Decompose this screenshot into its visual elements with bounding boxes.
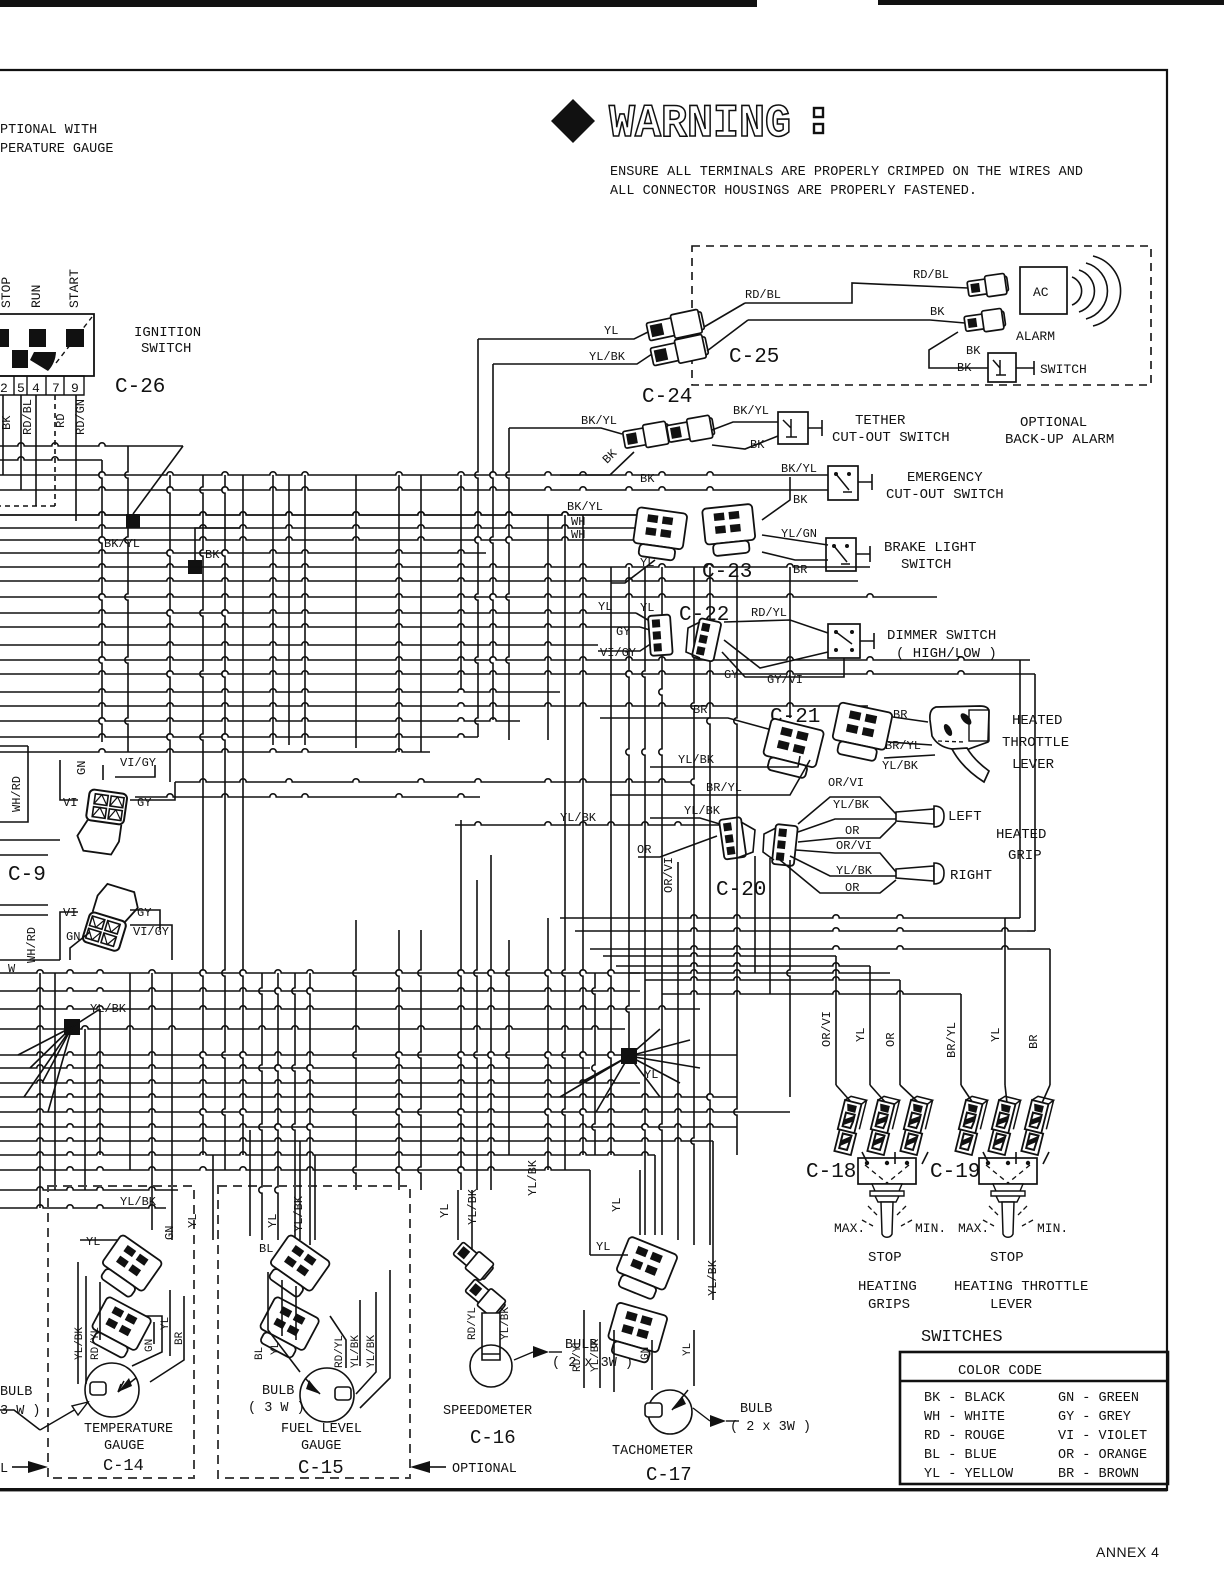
svg-text:BK/YL: BK/YL: [781, 462, 817, 476]
svg-text:C-19: C-19: [930, 1161, 980, 1184]
wire mesh horizontal: [0, 703, 868, 706]
wire alarm switch lead: [1016, 361, 1034, 375]
wire mesh horizontal: [0, 749, 430, 752]
tether cut-out switch box: [778, 412, 808, 444]
svg-text:WH: WH: [571, 528, 585, 542]
wire junction BK riser: [195, 528, 240, 560]
svg-text:GRIPS: GRIPS: [868, 1297, 910, 1313]
wire mesh horizontal: [0, 525, 640, 528]
svg-text:PERATURE GAUGE: PERATURE GAUGE: [0, 142, 113, 157]
temp gauge wire loop left: [78, 1262, 100, 1384]
svg-text:C-9: C-9: [8, 864, 46, 887]
svg-text:RD/YL: RD/YL: [334, 1335, 346, 1368]
svg-text:STOP: STOP: [990, 1250, 1024, 1266]
wire mesh vertical lower: [171, 973, 173, 1240]
svg-text:( 2 x 3W ): ( 2 x 3W ): [730, 1420, 811, 1435]
svg-text:7: 7: [52, 381, 60, 396]
wire GY upper c9: [130, 782, 175, 800]
C-18 heating grips switch contacts: [865, 1161, 869, 1165]
svg-text:LEVER: LEVER: [1012, 757, 1055, 773]
brake light switch box: [826, 538, 856, 571]
svg-text:YL/BK: YL/BK: [466, 1188, 480, 1225]
wire mesh vertical lower: [659, 674, 662, 1235]
connector C-20 right shell: [763, 828, 776, 860]
svg-text:C-17: C-17: [646, 1464, 692, 1486]
C-18 heating grips switch dashed V: [865, 1165, 909, 1183]
wire tail YL c19: [1005, 1085, 1007, 1103]
wire BK to C-24: [560, 452, 634, 475]
ignition switch terminal pin 5 lower: [12, 350, 28, 368]
wire mesh vertical lower: [734, 674, 737, 1155]
svg-text:SPEEDOMETER: SPEEDOMETER: [443, 1404, 532, 1419]
svg-text:VI: VI: [63, 796, 77, 810]
svg-text:OR/VI: OR/VI: [820, 1011, 834, 1047]
wire mesh vertical: [355, 475, 357, 700]
wire mesh horizontal: [0, 594, 937, 597]
svg-text:ANNEX 4: ANNEX 4: [1096, 1544, 1159, 1560]
svg-text:YL/BK: YL/BK: [684, 804, 721, 818]
wire mesh vertical lower: [240, 765, 243, 1155]
svg-text:TEMPERATURE: TEMPERATURE: [84, 1422, 173, 1437]
wire VI/GY into C-22: [598, 643, 652, 651]
wire mesh vertical lower: [488, 855, 491, 1190]
junction YL fan wire: [580, 1056, 629, 1083]
svg-text:START: START: [67, 269, 82, 308]
wire BK/YL to C-23: [0, 512, 640, 515]
wire GN upper c9: [102, 765, 104, 780]
wire to C-18 OR: [645, 977, 900, 980]
ignition switch rotor wedge: [30, 352, 56, 371]
wire mesh vertical lower: [420, 700, 422, 752]
svg-text:RD/YL: RD/YL: [467, 1307, 479, 1340]
connector C-21 left half: [760, 718, 825, 780]
wire mesh vertical: [200, 475, 203, 797]
wire mesh vertical lower: [506, 940, 509, 1155]
wire mesh horizontal lower: [0, 988, 640, 991]
svg-text:CUT-OUT SWITCH: CUT-OUT SWITCH: [832, 430, 950, 446]
wire BK to alarm switch: [929, 332, 988, 368]
wire mesh vertical: [304, 475, 306, 745]
connector C-17 lower: [604, 1302, 668, 1365]
C-19 terminal lead 3: [1043, 1152, 1049, 1164]
color code table outer box: [900, 1352, 1168, 1484]
wire junction BK/YL riser: [133, 446, 183, 514]
wire down to C-17 c: [654, 1155, 656, 1235]
wire mesh vertical: [99, 460, 102, 742]
svg-text:WARNING: WARNING: [609, 98, 791, 150]
wire mesh vertical lower: [691, 674, 694, 1245]
wire mesh vertical: [661, 567, 663, 674]
wire mesh vertical lower: [151, 973, 153, 1230]
wire VI/GY wire upper: [115, 765, 155, 777]
wire mesh horizontal lower: [0, 1205, 166, 1208]
wire mesh horizontal: [0, 657, 1030, 660]
C-19 heating throttle switch contacts: [986, 1161, 990, 1165]
wire down to C-16 b: [471, 1190, 473, 1250]
wire YL/BK c20: [650, 818, 723, 825]
svg-text:BK: BK: [793, 493, 808, 507]
wire to C-19 BR: [590, 946, 1050, 949]
tachometer needle: [672, 1390, 688, 1410]
connector C-24 left terminal: [622, 421, 671, 452]
svg-text:GY: GY: [137, 906, 151, 920]
svg-text:YL: YL: [86, 1235, 100, 1249]
wire mesh horizontal lower: [0, 959, 60, 961]
svg-text:LEFT: LEFT: [948, 809, 982, 825]
alarm terminal lower: [964, 308, 1007, 334]
wire mesh vertical lower: [608, 660, 611, 1155]
C-19 heating throttle switch nut: [991, 1184, 1025, 1202]
svg-text:BK - BLACK: BK - BLACK: [924, 1391, 1006, 1406]
wire vertical drop YL c19: [1004, 918, 1006, 1085]
svg-text:C-18: C-18: [806, 1161, 856, 1184]
svg-text:OR: OR: [845, 881, 859, 895]
connector C-21 right half: [829, 702, 892, 763]
wire mesh vertical: [582, 515, 584, 660]
wire YL/GN to brake switch: [762, 535, 828, 545]
svg-text:YL: YL: [854, 1028, 868, 1042]
wire from ignition pin 9: [75, 395, 77, 521]
connector C-20 left shell: [737, 822, 755, 858]
svg-text:BR: BR: [793, 563, 807, 577]
svg-text:BK/YL: BK/YL: [567, 500, 603, 514]
fuel gauge dashed box: [218, 1186, 410, 1478]
wire BK/YL to C-24: [509, 428, 622, 434]
svg-text:BR: BR: [893, 708, 907, 722]
wire to C-18 OR/VI: [603, 953, 836, 956]
junction YL fan wire: [629, 1056, 660, 1097]
svg-text:ENSURE ALL TERMINALS ARE PROPE: ENSURE ALL TERMINALS ARE PROPERLY CRIMPE…: [610, 165, 1083, 180]
wire mesh vertical lower: [508, 692, 510, 740]
svg-text:MAX.: MAX.: [958, 1221, 989, 1236]
wire right bend: [575, 928, 1027, 931]
wire mesh vertical lower: [54, 973, 56, 1190]
svg-text:GN - GREEN: GN - GREEN: [1058, 1391, 1139, 1406]
speedometer lower terminal: [463, 1277, 508, 1320]
svg-text:OR: OR: [884, 1033, 898, 1047]
wire mesh vertical: [610, 567, 612, 660]
wire mesh vertical lower: [398, 700, 400, 752]
wire mesh horizontal: [0, 472, 742, 475]
svg-text:OR/VI: OR/VI: [662, 857, 676, 893]
svg-text:PTIONAL WITH: PTIONAL WITH: [0, 123, 97, 138]
wire mesh vertical lower: [789, 567, 791, 718]
wire mesh vertical: [167, 475, 170, 782]
ignition switch terminal pin RUN: [29, 329, 46, 347]
wire BK under tether: [712, 436, 778, 449]
fuel gauge needle: [305, 1378, 320, 1394]
connector C-14 upper: [94, 1234, 163, 1302]
wire GN lower c9: [70, 932, 90, 960]
wire mesh vertical: [460, 475, 462, 690]
C-19 terminal BR: [1019, 1095, 1053, 1155]
svg-text:BK: BK: [966, 344, 981, 358]
tachometer nub: [645, 1403, 662, 1417]
wire vertical drop OR/VI: [835, 956, 837, 1085]
bulb arrow tach: [710, 1415, 726, 1427]
bulb arrow temp: [40, 1402, 88, 1430]
wire down to C-17: [589, 1170, 591, 1255]
svg-text:CUT-OUT SWITCH: CUT-OUT SWITCH: [886, 487, 1004, 503]
alarm terminal upper: [967, 273, 1010, 299]
wire mesh horizontal: [0, 537, 640, 540]
wire mesh vertical: [242, 475, 244, 765]
svg-text:YL/BK: YL/BK: [526, 1159, 540, 1196]
wire YL to C-25: [478, 330, 652, 339]
wire BK inside C-25: [748, 320, 965, 323]
wire mesh horizontal: [0, 550, 486, 553]
bulb lead left: [0, 1410, 40, 1430]
wire mesh vertical lower: [707, 674, 710, 1245]
temperature gauge needle: [118, 1378, 136, 1392]
wire from ignition pin 4: [35, 395, 37, 506]
svg-text:YL: YL: [186, 1214, 200, 1228]
svg-text:LEVER: LEVER: [990, 1297, 1033, 1313]
temp gauge wire loop right: [132, 1290, 184, 1382]
svg-text:RD/BL: RD/BL: [913, 268, 949, 282]
wire mesh vertical: [709, 567, 711, 674]
svg-text:BK: BK: [957, 361, 972, 375]
wire OR/VI right grip: [796, 850, 896, 872]
svg-text:C-26: C-26: [115, 376, 165, 399]
temperature gauge dashed box: [48, 1186, 194, 1478]
wire mesh vertical lower: [396, 930, 399, 1190]
svg-text:C-23: C-23: [702, 561, 752, 584]
wire mesh horizontal: [0, 564, 870, 567]
wire YL/BK right grip: [790, 856, 896, 876]
wire vertical drop OR c18: [899, 980, 901, 1085]
connector C-23 left half: [631, 507, 687, 562]
wire VI/GY lower c9: [130, 925, 172, 960]
fuel gauge circle: [300, 1368, 354, 1422]
wire C-24 to tether switch: [712, 422, 778, 430]
wire mesh horizontal lower: [0, 1065, 590, 1068]
svg-text:IGNITION: IGNITION: [134, 325, 201, 341]
svg-text:VI: VI: [63, 906, 77, 920]
temperature gauge nub: [90, 1382, 106, 1395]
WH/RD box left edge: [0, 746, 28, 822]
wire mesh horizontal: [0, 610, 636, 613]
wire down to C-15 b: [314, 1155, 316, 1240]
dimmer switch box: [828, 624, 860, 658]
svg-text:HEATING: HEATING: [858, 1279, 917, 1295]
svg-text:2: 2: [0, 381, 8, 396]
wire down to C-17 b: [639, 1170, 641, 1235]
svg-text:RD/BL: RD/BL: [745, 288, 781, 302]
svg-text:BULB: BULB: [262, 1384, 294, 1399]
svg-text:VI/GY: VI/GY: [120, 756, 156, 770]
tachometer circle: [648, 1390, 692, 1434]
brake switch lead: [856, 546, 870, 562]
wire mesh horizontal: [0, 671, 1035, 674]
wire down to C-14 b: [249, 1130, 251, 1236]
wire mesh vertical lower: [642, 660, 645, 1235]
svg-text:YL: YL: [266, 1214, 280, 1228]
wire VI lower c9: [60, 912, 78, 960]
wire GY return from dimmer: [724, 640, 828, 668]
wire BR/YL return c21: [610, 760, 810, 795]
wire mesh horizontal lower: [0, 1138, 713, 1141]
speedometer upper terminal: [451, 1240, 496, 1283]
temperature gauge circle: [85, 1363, 139, 1417]
wire GY lower c9: [130, 910, 160, 930]
svg-text:YL: YL: [610, 1198, 624, 1212]
connector C-15 lower: [253, 1296, 320, 1362]
wire mesh vertical lower: [200, 797, 203, 1155]
C-18 heating grips switch throw rays: [862, 1206, 912, 1226]
wire mesh vertical lower: [580, 660, 583, 1155]
svg-text:GY: GY: [137, 796, 151, 810]
svg-text:C-25: C-25: [729, 346, 779, 369]
tach wire left: [584, 1310, 614, 1392]
svg-text:YL: YL: [604, 324, 618, 338]
C-19 terminal BR/YL: [953, 1095, 987, 1155]
svg-text:MIN.: MIN.: [1037, 1221, 1068, 1236]
svg-text:9: 9: [71, 381, 79, 396]
svg-text:COLOR CODE: COLOR CODE: [958, 1363, 1042, 1379]
junction YL/BK fan wire: [30, 1027, 72, 1068]
connector C-17 upper: [611, 1236, 678, 1303]
wire C-20 drop right: [769, 858, 771, 994]
svg-text:BL - BLUE: BL - BLUE: [924, 1448, 997, 1463]
wire mesh horizontal: [0, 443, 183, 446]
wire OR/VI left grip: [798, 797, 896, 824]
svg-text:YL/BK: YL/BK: [589, 350, 626, 364]
svg-text:3 W ): 3 W ): [0, 1404, 41, 1419]
ignition switch body: [0, 314, 94, 376]
svg-text:OPTIONAL: OPTIONAL: [1020, 415, 1087, 431]
wire tail OR/VI c18: [836, 1085, 852, 1103]
fuel gauge wire right: [330, 1270, 390, 1408]
wire YL tail from C-23: [611, 560, 655, 583]
svg-text:BK/YL: BK/YL: [104, 537, 140, 551]
svg-text:RUN: RUN: [29, 285, 44, 308]
wire mesh vertical: [506, 428, 509, 692]
wire mesh horizontal lower: [0, 1152, 655, 1155]
wire mesh vertical lower: [129, 973, 131, 1170]
svg-text:C-20: C-20: [716, 879, 766, 902]
svg-text:WH - WHITE: WH - WHITE: [924, 1410, 1005, 1425]
svg-text:TETHER: TETHER: [855, 413, 906, 429]
wire mesh vertical lower: [787, 860, 790, 1097]
C-18 terminal YL: [865, 1095, 899, 1155]
wire tail YL c18: [870, 1085, 886, 1103]
wire mesh horizontal: [0, 487, 742, 490]
wire OR left grip: [798, 822, 896, 842]
svg-text:BR: BR: [1027, 1035, 1041, 1049]
C-18 heating grips switch nut: [870, 1184, 904, 1202]
svg-text:RD/BL: RD/BL: [21, 399, 35, 435]
wire mesh horizontal lower: [0, 839, 60, 841]
wire vertical right 1035: [1034, 674, 1036, 931]
wire tail BR c19: [1042, 1085, 1050, 1103]
svg-text:YL/BK: YL/BK: [882, 759, 919, 773]
svg-text:BL: BL: [259, 1242, 273, 1256]
svg-text:GAUGE: GAUGE: [104, 1439, 145, 1454]
svg-text:YL: YL: [682, 1343, 694, 1356]
junction YL fan wire: [629, 1029, 660, 1056]
svg-text:BK: BK: [0, 415, 14, 430]
wire mesh vertical lower: [222, 765, 225, 1170]
svg-text:ALL CONNECTOR HOUSINGS ARE PRO: ALL CONNECTOR HOUSINGS ARE PROPERLY FAST…: [610, 184, 977, 199]
C-18 heating grips switch stem: [881, 1202, 893, 1237]
connector C-23 right half: [702, 504, 757, 557]
wire mesh horizontal lower: [0, 914, 48, 916]
wire BK/YL to emergency switch: [742, 474, 828, 476]
tach wire right: [652, 1330, 694, 1390]
svg-text:STOP: STOP: [0, 277, 14, 308]
svg-text:OR - ORANGE: OR - ORANGE: [1058, 1448, 1147, 1463]
svg-text:VI/GY: VI/GY: [133, 925, 169, 939]
junction YL fan wire: [560, 1056, 629, 1097]
svg-text:YL/BK: YL/BK: [833, 798, 870, 812]
svg-text:BR/YL: BR/YL: [885, 739, 921, 753]
wire mesh vertical lower: [307, 973, 310, 1245]
wire mesh horizontal lower: [175, 779, 690, 782]
svg-text:GAUGE: GAUGE: [301, 1439, 342, 1454]
dimmer switch lead: [860, 633, 874, 649]
wire mesh vertical lower: [259, 973, 262, 1240]
speedometer shaft: [482, 1313, 500, 1360]
wire down to C-14: [212, 1155, 214, 1240]
wire mesh vertical: [628, 567, 630, 660]
wire mesh vertical lower: [458, 820, 461, 1190]
svg-text:GY: GY: [616, 625, 630, 639]
svg-text:C-15: C-15: [298, 1457, 344, 1479]
svg-text:YL - YELLOW: YL - YELLOW: [924, 1467, 1014, 1482]
wire mesh vertical: [398, 475, 400, 700]
svg-text:RIGHT: RIGHT: [950, 868, 992, 884]
svg-text:BR/YL: BR/YL: [945, 1022, 959, 1058]
junction YL fan wire: [596, 1056, 629, 1112]
wire OR into c20: [638, 836, 717, 857]
svg-text:OR/VI: OR/VI: [828, 776, 864, 790]
svg-text:YL: YL: [640, 601, 654, 615]
svg-text:MAX.: MAX.: [834, 1221, 865, 1236]
wire OR right grip: [780, 860, 896, 893]
wire mesh vertical lower: [292, 973, 295, 1245]
svg-text:C-16: C-16: [470, 1427, 516, 1449]
wire mesh vertical: [564, 515, 566, 660]
fuel gauge wire left: [268, 1272, 300, 1372]
svg-text:OPTIONAL: OPTIONAL: [452, 1462, 517, 1477]
connector C-25 lower terminal: [650, 334, 710, 369]
left heated grip icon: [896, 809, 934, 824]
page border top black bar right segment: [878, 0, 1224, 5]
C-19 heating throttle switch throw rays: [983, 1206, 1033, 1226]
wire mesh horizontal lower: [0, 1006, 700, 1009]
wire YL/BK left grip: [798, 819, 896, 832]
wire C-23 to emergency: [762, 477, 790, 520]
svg-text:DIMMER SWITCH: DIMMER SWITCH: [887, 628, 996, 644]
svg-text:C-14: C-14: [103, 1457, 144, 1476]
junction YL fan wire: [629, 1040, 690, 1056]
wire mesh horizontal lower: [0, 1187, 178, 1190]
wire down to C-16: [457, 1190, 459, 1240]
wire mesh horizontal: [0, 718, 520, 721]
wire mesh horizontal lower: [0, 1109, 790, 1112]
svg-text:SWITCH: SWITCH: [141, 341, 191, 357]
wire from ignition pin 2: [2, 395, 4, 475]
C-18 terminal OR/VI: [832, 1095, 866, 1155]
wire mesh vertical: [475, 339, 478, 737]
svg-text:HEATED: HEATED: [996, 827, 1046, 843]
svg-text:YL: YL: [989, 1028, 1003, 1042]
wire mesh vertical lower: [353, 920, 356, 1190]
junction YL/BK lower: [64, 1019, 80, 1035]
svg-text:AC: AC: [1033, 285, 1049, 300]
svg-text:BK: BK: [205, 548, 220, 562]
